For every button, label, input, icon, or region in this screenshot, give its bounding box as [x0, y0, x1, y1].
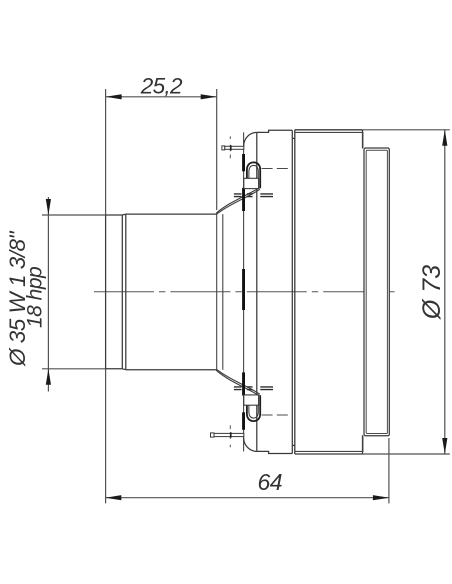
svg-text:Ø 73: Ø 73 — [418, 265, 446, 320]
svg-text:64: 64 — [258, 469, 283, 495]
svg-text:25,2: 25,2 — [140, 74, 183, 99]
svg-text:18 hpp: 18 hpp — [24, 267, 47, 328]
